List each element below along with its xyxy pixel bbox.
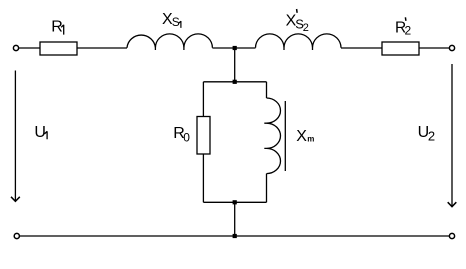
label R1 — [51, 19, 63, 36]
svg-text:U: U — [34, 124, 46, 141]
resistor R0 — [197, 117, 210, 155]
wire R2 to terminal top-right — [419, 47, 449, 49]
svg-text:m: m — [307, 135, 314, 144]
svg-text:2: 2 — [405, 24, 412, 38]
terminal bottom-left — [14, 233, 19, 238]
wire Xm coil to shunt bottom bar — [266, 174, 268, 203]
wire node A down to shunt top bar — [234, 48, 236, 82]
svg-text:2: 2 — [303, 22, 309, 34]
label R2' — [395, 17, 412, 37]
Xm core line — [284, 101, 286, 171]
label R0 — [173, 125, 190, 144]
U2 arrowhead — [448, 202, 457, 207]
node A junction dot — [233, 46, 237, 50]
svg-text:X: X — [296, 128, 307, 145]
wire shunt to bottom rail — [234, 202, 236, 236]
label Xm — [296, 128, 314, 145]
svg-text:2: 2 — [428, 129, 435, 144]
wire R1 to XS1 — [77, 47, 127, 49]
resistor R1 — [40, 42, 77, 55]
wire R0 to shunt bottom bar — [202, 154, 204, 202]
wire down to Xm coil — [266, 82, 268, 98]
label U1 — [34, 124, 47, 141]
label U2 — [418, 124, 436, 144]
U1 arrowhead — [11, 197, 20, 202]
label XS2' — [286, 9, 309, 34]
terminal top-right — [449, 45, 454, 50]
inductor XS1 — [127, 34, 212, 50]
shunt bottom bar wire — [203, 201, 266, 203]
wire XS1 to node A — [212, 47, 234, 49]
svg-text:S: S — [172, 15, 180, 29]
inductor XS2' — [256, 34, 342, 50]
wire top-left to R1 — [19, 47, 40, 49]
bottom rail wire — [20, 235, 450, 237]
resistor R2' — [382, 42, 419, 55]
U2 arrow line — [451, 64, 453, 206]
wire node A to XS2 — [235, 47, 256, 49]
terminal top-left — [13, 45, 18, 50]
wire XS2 to R2 — [341, 47, 382, 49]
wire down to R0 — [202, 82, 204, 117]
shunt top bar wire — [203, 81, 266, 83]
junction dot shunt top — [233, 80, 237, 84]
U1 arrow line — [14, 71, 16, 202]
junction dot shunt bottom — [233, 200, 237, 204]
label XS1 — [162, 11, 181, 29]
terminal bottom-right — [449, 233, 454, 238]
svg-text:0: 0 — [183, 131, 190, 145]
inductor Xm — [264, 98, 280, 174]
junction dot bottom rail — [233, 234, 237, 238]
